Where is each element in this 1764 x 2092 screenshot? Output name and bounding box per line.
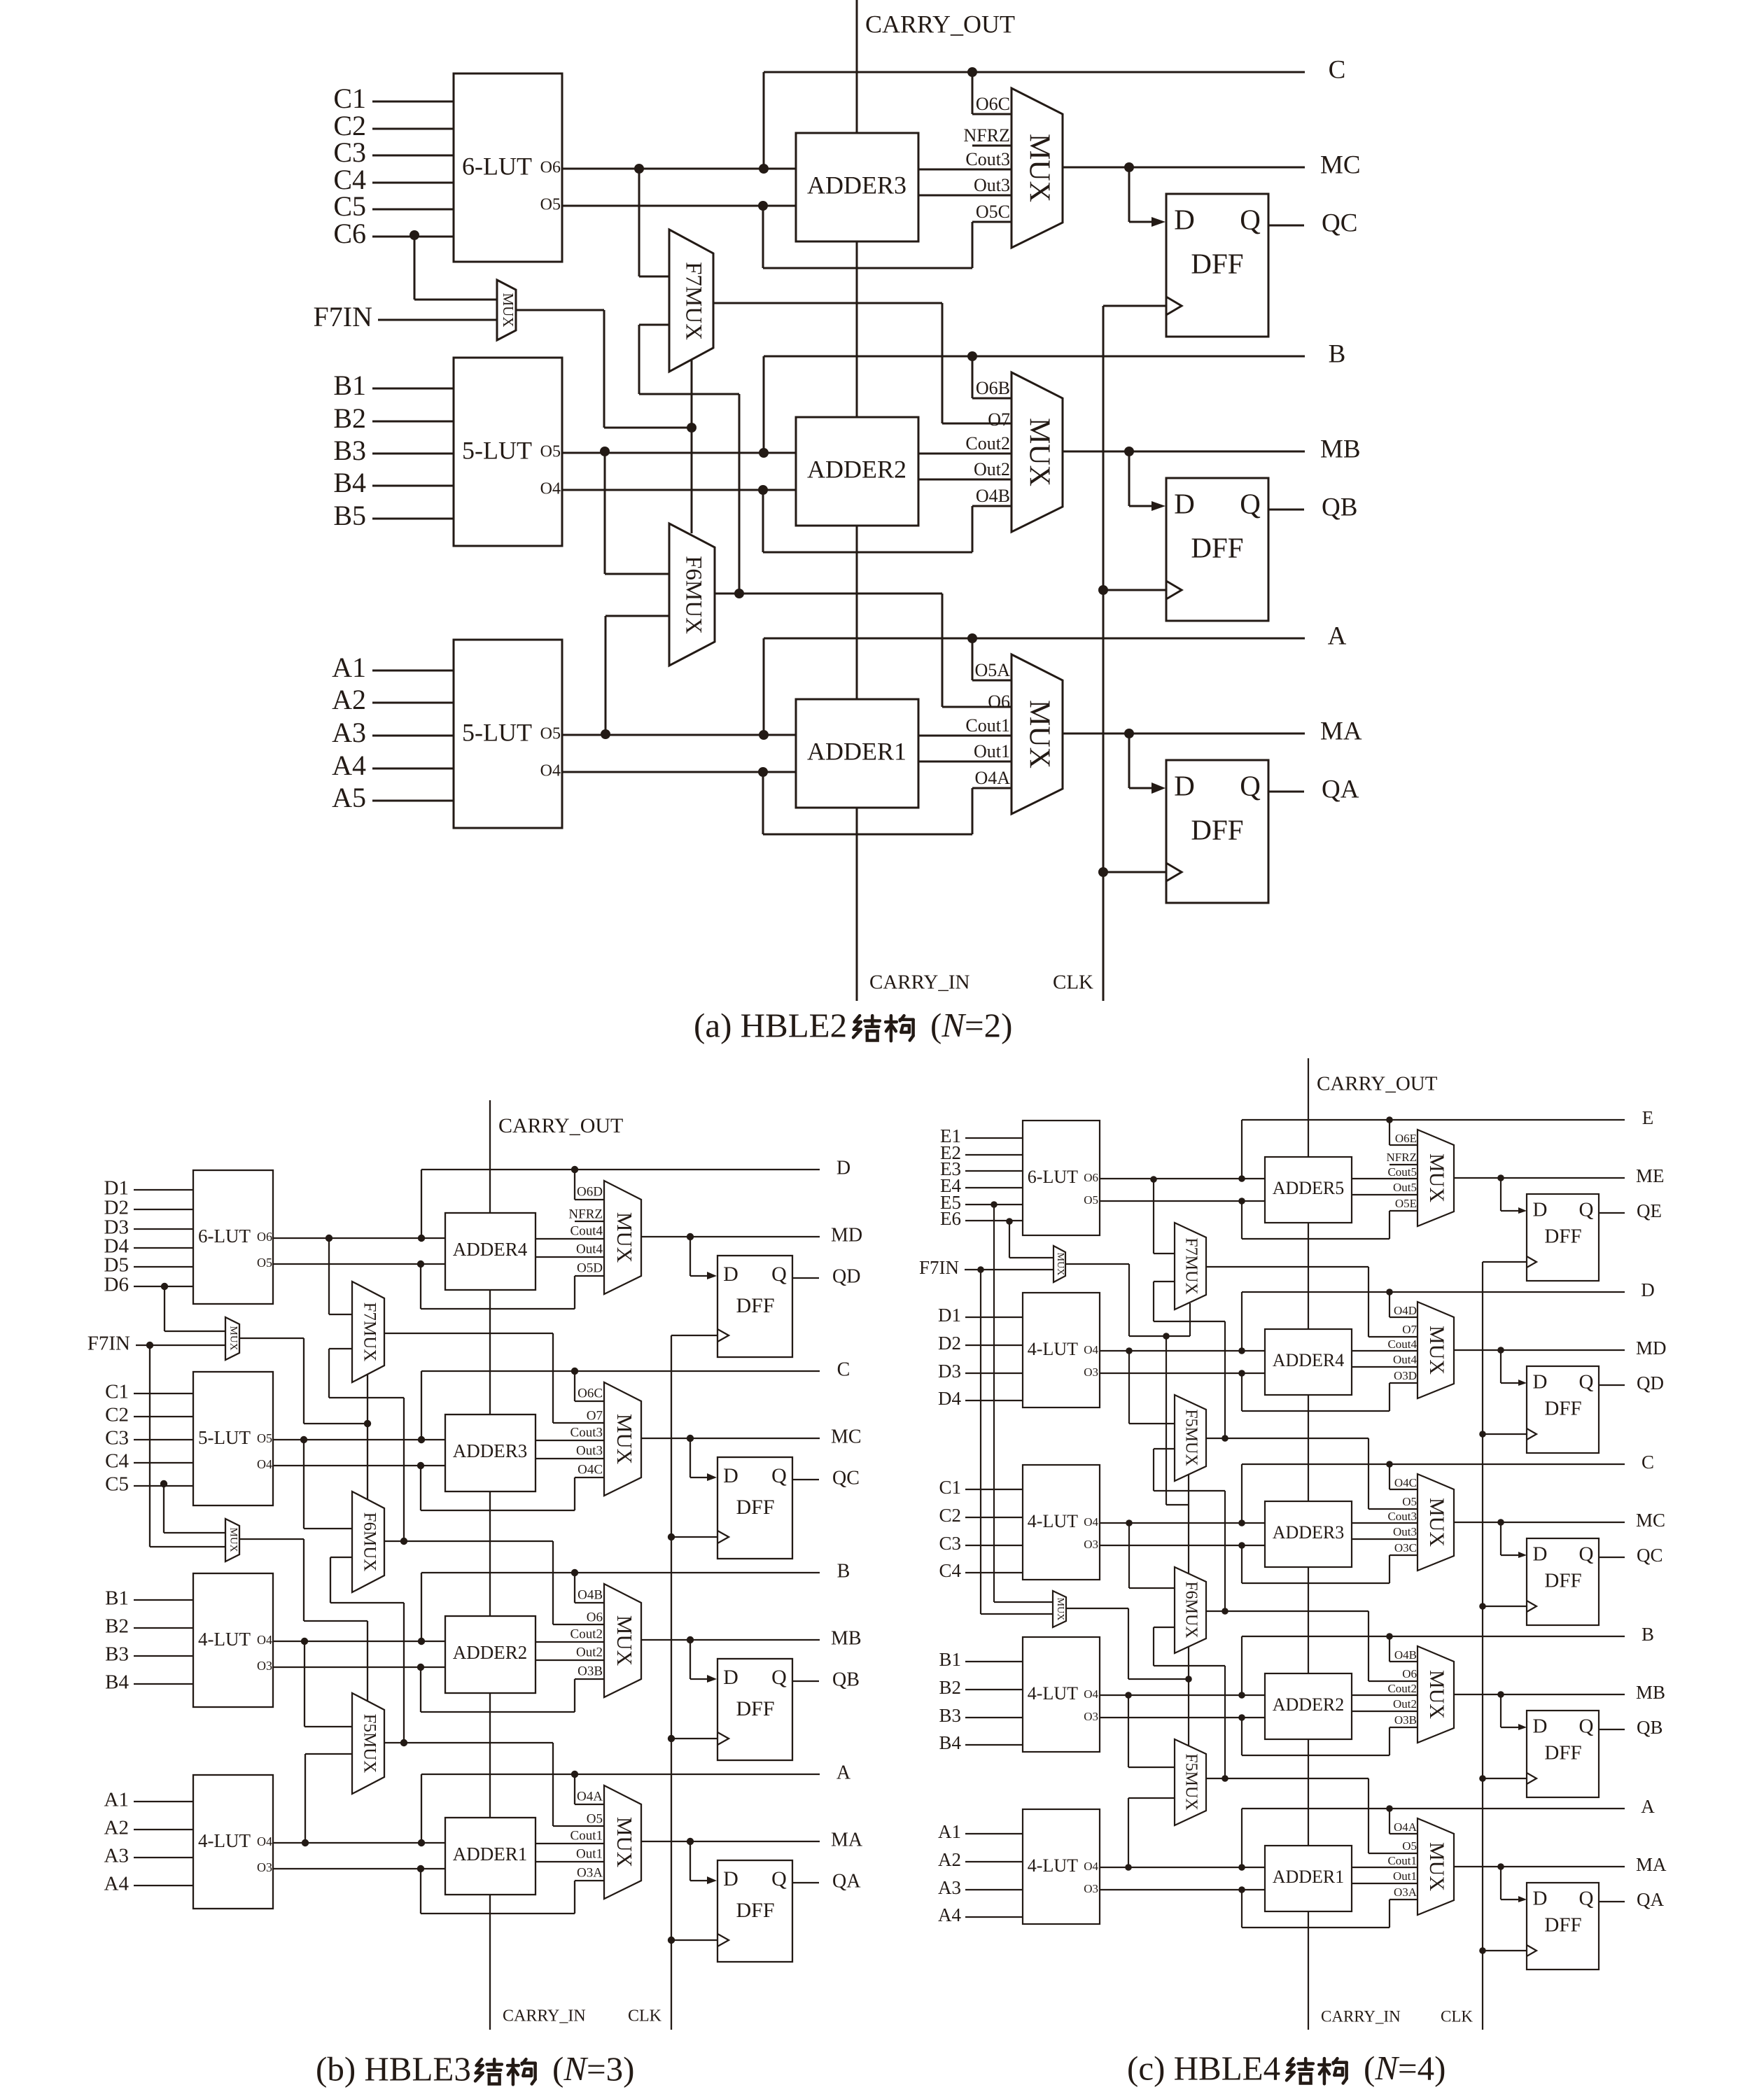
- svg-text:Cout2: Cout2: [1387, 1682, 1417, 1695]
- svg-text:O5: O5: [540, 443, 561, 461]
- svg-text:CLK: CLK: [1053, 971, 1093, 994]
- svg-text:NFRZ: NFRZ: [568, 1207, 603, 1221]
- svg-text:O4D: O4D: [1394, 1304, 1417, 1317]
- svg-text:MB: MB: [1320, 435, 1361, 463]
- wire MUX input O6B: [972, 356, 1011, 398]
- svg-text:O6E: O6E: [1395, 1132, 1417, 1145]
- net C row line: [764, 55, 1345, 84]
- wire MUX input O6E: [1389, 1120, 1417, 1145]
- MUX C row: [1011, 88, 1063, 248]
- svg-text:MUX: MUX: [228, 1326, 239, 1350]
- wire Cout1: [535, 1828, 604, 1844]
- net MC line: [641, 1426, 862, 1447]
- svg-text:Out2: Out2: [576, 1645, 603, 1659]
- wire Out1: [918, 741, 1011, 761]
- wire F5MUX c lower input from F6MUX out: [1154, 1449, 1225, 1611]
- svg-text:F5MUX: F5MUX: [360, 1714, 379, 1774]
- wire D6 to small MUX1: [161, 1283, 225, 1331]
- wire C lower output O3: [1100, 1545, 1265, 1546]
- wire F6MUX c upper input from C O4: [1126, 1519, 1175, 1588]
- wire clock D: [1483, 1433, 1527, 1435]
- svg-text:O6: O6: [257, 1230, 272, 1244]
- label CARRY_OUT: [498, 1114, 623, 1137]
- wire F5MUX b upper input from B O4: [301, 1638, 352, 1727]
- wire Out3: [535, 1443, 604, 1459]
- input A1: [332, 652, 454, 683]
- net B row line: [1242, 1624, 1654, 1645]
- wire E5 to small MUX2 c: [990, 1201, 1053, 1602]
- svg-text:B5: B5: [333, 500, 366, 531]
- svg-text:MUX: MUX: [612, 1212, 637, 1263]
- label CLK: [1053, 971, 1093, 994]
- 4-LUT A (A1-A4): [193, 1775, 273, 1909]
- svg-text:Out3: Out3: [576, 1443, 603, 1458]
- svg-text:B3: B3: [939, 1705, 961, 1726]
- wire Out1: [535, 1846, 604, 1862]
- input E1: [940, 1125, 1023, 1146]
- 6-LUT C (C1-C6): [454, 73, 562, 262]
- input B5: [333, 500, 454, 531]
- svg-text:Out1: Out1: [974, 741, 1010, 761]
- svg-text:F6MUX: F6MUX: [360, 1512, 379, 1572]
- svg-text:C3: C3: [939, 1533, 961, 1554]
- net B row line: [764, 339, 1345, 368]
- wire F6MUX b upper input from C O5: [300, 1436, 352, 1529]
- svg-text:O3: O3: [257, 1659, 272, 1673]
- svg-text:D: D: [1533, 1888, 1548, 1910]
- junction B upper to row line: [418, 1573, 425, 1645]
- svg-text:O7: O7: [587, 1408, 603, 1423]
- svg-text:O4: O4: [1084, 1860, 1098, 1873]
- wire B upper output O4: [1100, 1694, 1265, 1696]
- wire C lower output O5: [562, 205, 796, 207]
- net MB line: [641, 1627, 862, 1649]
- input B1: [939, 1649, 1023, 1670]
- wire F7MUX lower input from F6MUX out: [639, 325, 744, 598]
- wire F5MUX c2 upper input from B O4: [1125, 1692, 1175, 1767]
- svg-text:Cout3: Cout3: [570, 1425, 603, 1440]
- svg-text:B3: B3: [333, 435, 366, 466]
- 4-LUT B (B1-B4): [1023, 1637, 1100, 1752]
- svg-text:A3: A3: [104, 1845, 129, 1867]
- label MUX input O6: [587, 1610, 603, 1624]
- wire O3B detour: [1238, 1713, 1417, 1755]
- DFF C: [717, 1457, 792, 1559]
- label CARRY_OUT: [1317, 1073, 1438, 1095]
- junction E upper to row line: [1238, 1120, 1245, 1182]
- svg-text:(N=3): (N=3): [552, 2049, 634, 2088]
- svg-text:O6C: O6C: [577, 1386, 603, 1400]
- input E6: [940, 1208, 1023, 1229]
- MUX B row: [1417, 1646, 1454, 1743]
- svg-text:A4: A4: [938, 1904, 961, 1925]
- label MUX input O5: [587, 1811, 603, 1826]
- svg-text:(b) HBLE3: (b) HBLE3: [316, 2049, 471, 2088]
- wire Out4: [535, 1242, 604, 1257]
- svg-text:C4: C4: [939, 1560, 961, 1581]
- wire F5MUX b output to A MUX O5: [384, 1743, 605, 1826]
- wire F7MUX b upper input from D O6: [325, 1235, 352, 1314]
- svg-text:Cout2: Cout2: [965, 433, 1010, 454]
- svg-text:O6: O6: [988, 692, 1010, 712]
- svg-text:CARRY_OUT: CARRY_OUT: [865, 10, 1015, 38]
- DFF B: [717, 1659, 792, 1760]
- adder ADDER2: [445, 1616, 535, 1693]
- net CLK vertical: [1098, 306, 1108, 1001]
- svg-text:A2: A2: [938, 1849, 961, 1870]
- wire Out2: [535, 1645, 604, 1660]
- wire Cout3: [918, 149, 1011, 169]
- svg-text:C5: C5: [105, 1473, 129, 1496]
- wire Cout1: [918, 715, 1011, 736]
- svg-text:ADDER3: ADDER3: [453, 1440, 528, 1461]
- net MD line: [1454, 1338, 1667, 1359]
- wire MUX input O4B: [1389, 1636, 1417, 1662]
- F7MUX b: [352, 1282, 384, 1382]
- wire MUX input NFRZ stub: [568, 1207, 604, 1221]
- svg-text:F6MUX: F6MUX: [1182, 1581, 1200, 1638]
- wire clock E: [1483, 1261, 1527, 1263]
- wire Out5: [1352, 1181, 1417, 1195]
- svg-text:D: D: [836, 1157, 850, 1179]
- adder ADDER3: [1265, 1501, 1352, 1567]
- svg-text:MUX: MUX: [1425, 1670, 1448, 1719]
- svg-text:4-LUT: 4-LUT: [1028, 1339, 1078, 1359]
- F7MUX: [669, 230, 713, 372]
- svg-text:A4: A4: [104, 1873, 129, 1895]
- svg-text:Out3: Out3: [1393, 1525, 1417, 1538]
- wire clock A: [1483, 1950, 1527, 1951]
- net C row line: [1242, 1452, 1654, 1473]
- input C2: [333, 110, 454, 141]
- input E5: [940, 1192, 1023, 1213]
- wire MUX input NFRZ stub: [964, 125, 1011, 146]
- input C1: [105, 1381, 193, 1403]
- svg-text:MUX: MUX: [1425, 1326, 1448, 1375]
- svg-text:Q: Q: [1240, 487, 1261, 519]
- wire O3A detour: [1238, 1886, 1417, 1928]
- svg-text:MUX: MUX: [612, 1414, 637, 1464]
- net QC line: [1599, 1545, 1663, 1566]
- svg-text:O4C: O4C: [1394, 1476, 1417, 1489]
- F5MUX c upper: [1175, 1395, 1206, 1481]
- wire D feed B: [1501, 1694, 1527, 1730]
- svg-text:O7: O7: [988, 409, 1010, 430]
- svg-text:F7IN: F7IN: [314, 301, 372, 332]
- svg-text:O5C: O5C: [976, 202, 1010, 222]
- wire F5MUX c2 output to A MUX O5: [1206, 1775, 1417, 1853]
- svg-text:O3A: O3A: [1394, 1886, 1417, 1899]
- wire D feed D: [1501, 1350, 1527, 1386]
- svg-text:B: B: [1329, 339, 1346, 368]
- wire C5 to small MUX2: [160, 1480, 225, 1533]
- wire Cout2: [535, 1627, 604, 1642]
- input D5: [104, 1254, 193, 1277]
- MUX E row: [1417, 1130, 1454, 1226]
- wire F7MUX b output to C MUX O7: [384, 1333, 605, 1423]
- svg-text:ADDER3: ADDER3: [1273, 1522, 1345, 1543]
- input D3: [104, 1216, 193, 1239]
- net MC line: [1063, 150, 1361, 179]
- svg-text:DFF: DFF: [736, 1899, 774, 1922]
- input B2: [333, 402, 454, 434]
- svg-text:O3: O3: [1084, 1366, 1098, 1379]
- svg-text:Cout5: Cout5: [1387, 1165, 1417, 1179]
- junction D upper to row line: [418, 1170, 425, 1242]
- svg-text:E6: E6: [940, 1208, 961, 1229]
- svg-text:A1: A1: [104, 1789, 129, 1811]
- DFF B: [1166, 478, 1268, 621]
- input D2: [104, 1197, 193, 1219]
- svg-text:DFF: DFF: [736, 1496, 774, 1519]
- wire MUX input O6D: [575, 1170, 604, 1200]
- input C2: [939, 1505, 1023, 1526]
- svg-text:B: B: [837, 1560, 850, 1582]
- F7MUX c: [1175, 1223, 1206, 1310]
- svg-text:MUX: MUX: [1023, 418, 1055, 486]
- DFF C: [1166, 194, 1268, 337]
- input C2: [105, 1404, 193, 1426]
- svg-text:O6B: O6B: [976, 378, 1010, 398]
- MUX small 2 b: [225, 1519, 239, 1561]
- svg-text:O4: O4: [540, 762, 561, 780]
- label MUX input O7: [587, 1408, 603, 1423]
- svg-text:O3C: O3C: [1394, 1541, 1417, 1554]
- junction C upper to row line: [1238, 1464, 1245, 1526]
- F6MUX b: [352, 1491, 384, 1592]
- svg-text:MC: MC: [1636, 1510, 1665, 1531]
- svg-text:MB: MB: [1636, 1682, 1665, 1703]
- input B2: [105, 1615, 193, 1638]
- wire D feed A: [690, 1841, 717, 1884]
- wire clock C: [671, 1536, 717, 1538]
- adder ADDER1: [1265, 1846, 1352, 1911]
- net D row line: [1242, 1279, 1655, 1300]
- svg-text:O5: O5: [1084, 1193, 1098, 1207]
- wire clock D: [671, 1335, 717, 1336]
- svg-text:O5A: O5A: [974, 660, 1010, 680]
- svg-text:DFF: DFF: [1544, 1742, 1581, 1764]
- net B row line: [421, 1560, 850, 1582]
- svg-text:DFF: DFF: [736, 1294, 774, 1317]
- wire B upper output O5: [562, 452, 796, 454]
- DFF A: [717, 1860, 792, 1962]
- wire D feed A: [1501, 1867, 1527, 1902]
- wire B lower output O3: [1100, 1717, 1265, 1718]
- input B1: [333, 370, 454, 401]
- svg-text:O5E: O5E: [1395, 1197, 1417, 1210]
- svg-text:O6: O6: [1402, 1667, 1417, 1680]
- wire E6 to small MUX1 c: [1006, 1218, 1053, 1258]
- input B1: [105, 1587, 193, 1610]
- svg-text:Cout4: Cout4: [1387, 1338, 1417, 1351]
- wire F6MUX output to A MUX O6: [715, 594, 1011, 707]
- svg-text:Q: Q: [771, 1263, 787, 1286]
- svg-text:MUX: MUX: [1055, 1598, 1065, 1621]
- svg-text:ADDER4: ADDER4: [1273, 1350, 1345, 1370]
- input A4: [938, 1904, 1023, 1925]
- wire O4A detour: [758, 767, 1011, 834]
- net CARRY chain vertical: [856, 0, 858, 1001]
- DFF B: [1527, 1711, 1599, 1797]
- input C4: [939, 1560, 1023, 1581]
- net A row line: [421, 1762, 851, 1783]
- wire D upper output O6: [273, 1237, 445, 1239]
- svg-text:O6C: O6C: [976, 94, 1010, 114]
- wire clock A: [671, 1939, 717, 1941]
- input C6: [333, 218, 454, 249]
- svg-text:5-LUT: 5-LUT: [462, 718, 532, 746]
- svg-text:MC: MC: [831, 1426, 862, 1447]
- net A row line: [764, 622, 1347, 650]
- svg-text:CARRY_IN: CARRY_IN: [503, 2007, 586, 2026]
- svg-text:QA: QA: [1637, 1889, 1664, 1910]
- svg-text:C2: C2: [105, 1404, 129, 1426]
- MUX A row: [1417, 1818, 1454, 1915]
- net MB line: [1454, 1682, 1665, 1703]
- svg-text:A: A: [836, 1762, 851, 1783]
- wire O4B detour: [758, 485, 1011, 552]
- MUX small 2 c: [1053, 1591, 1066, 1627]
- svg-text:O3: O3: [1084, 1538, 1098, 1551]
- svg-text:Cout4: Cout4: [570, 1223, 603, 1238]
- input B4: [939, 1732, 1023, 1753]
- caption (b): [316, 2049, 634, 2088]
- svg-text:MUX: MUX: [1425, 1498, 1448, 1547]
- svg-text:Q: Q: [771, 1867, 787, 1890]
- svg-text:ME: ME: [1636, 1165, 1665, 1186]
- svg-text:D3: D3: [938, 1361, 961, 1382]
- svg-text:CLK: CLK: [1441, 2007, 1473, 2025]
- wire F5MUX c output to C MUX O5: [1206, 1438, 1417, 1509]
- svg-text:B2: B2: [939, 1677, 961, 1698]
- svg-text:D: D: [723, 1867, 738, 1890]
- wire O4C detour: [417, 1462, 604, 1510]
- junction D upper to row line: [1238, 1292, 1245, 1354]
- svg-text:D: D: [1174, 769, 1195, 801]
- svg-text:A2: A2: [104, 1817, 129, 1839]
- wire Out3: [918, 175, 1011, 195]
- input C1: [939, 1477, 1023, 1498]
- svg-text:DFF: DFF: [1191, 813, 1243, 845]
- svg-text:B2: B2: [105, 1615, 129, 1638]
- DFF D: [1527, 1366, 1599, 1453]
- svg-text:B4: B4: [105, 1671, 129, 1694]
- svg-text:E: E: [1642, 1107, 1654, 1128]
- net CLK vertical: [668, 1335, 675, 2030]
- svg-text:A: A: [1641, 1796, 1655, 1817]
- input A3: [938, 1877, 1023, 1898]
- svg-text:B3: B3: [105, 1643, 129, 1666]
- svg-text:O3: O3: [257, 1860, 272, 1874]
- wire F6MUX c lower input from F5MUX out: [1154, 1627, 1225, 1778]
- wire Out3: [1352, 1525, 1417, 1539]
- svg-text:QD: QD: [1637, 1373, 1664, 1394]
- svg-text:O5: O5: [257, 1256, 272, 1270]
- net QA line: [1599, 1889, 1664, 1910]
- wire F5MUX c upper input from D O4: [1126, 1347, 1175, 1424]
- input A5: [332, 782, 454, 813]
- input A3: [104, 1845, 193, 1867]
- wire D feed C: [690, 1438, 717, 1481]
- svg-text:O5: O5: [1402, 1495, 1417, 1508]
- net QA line: [793, 1870, 861, 1892]
- svg-text:MA: MA: [1320, 717, 1362, 745]
- F5MUX b: [352, 1693, 384, 1794]
- input B3: [939, 1705, 1023, 1726]
- svg-text:C: C: [1329, 55, 1346, 84]
- MUX A row: [1011, 654, 1063, 814]
- svg-text:MUX: MUX: [1425, 1842, 1448, 1891]
- svg-text:Q: Q: [1240, 203, 1261, 235]
- wire clock A: [1103, 871, 1166, 873]
- MUX D row: [1417, 1302, 1454, 1398]
- svg-text:Cout1: Cout1: [1387, 1854, 1417, 1867]
- wire clock B: [671, 1738, 717, 1739]
- MUX C row: [1417, 1474, 1454, 1571]
- svg-text:Q: Q: [1240, 769, 1261, 801]
- svg-text:Cout3: Cout3: [965, 149, 1010, 169]
- 6-LUT D (D1-D6): [193, 1170, 273, 1304]
- svg-text:F7IN: F7IN: [919, 1257, 959, 1278]
- svg-text:O6: O6: [587, 1610, 603, 1624]
- net QB line: [793, 1669, 860, 1690]
- svg-text:6-LUT: 6-LUT: [198, 1226, 251, 1247]
- svg-text:O5D: O5D: [577, 1261, 603, 1275]
- input D6: [104, 1274, 193, 1296]
- net MA line: [641, 1829, 863, 1851]
- svg-text:F7MUX: F7MUX: [1182, 1237, 1200, 1294]
- svg-text:C2: C2: [939, 1505, 961, 1526]
- input A4: [104, 1873, 193, 1895]
- svg-text:O4A: O4A: [577, 1789, 603, 1804]
- MUX B row: [604, 1584, 641, 1697]
- svg-text:A3: A3: [938, 1877, 961, 1898]
- svg-text:C4: C4: [105, 1450, 129, 1473]
- svg-text:CARRY_IN: CARRY_IN: [1321, 2007, 1401, 2025]
- wire A upper output O4: [273, 1842, 445, 1844]
- wire A upper output O4: [1100, 1867, 1265, 1868]
- MUX small 1 b: [225, 1317, 239, 1360]
- net D row line: [421, 1157, 850, 1179]
- wire D feed B: [1129, 451, 1165, 511]
- net QB line: [1268, 493, 1357, 521]
- svg-text:CARRY_OUT: CARRY_OUT: [1317, 1073, 1438, 1095]
- adder ADDER5: [1265, 1157, 1352, 1223]
- F6MUX c: [1175, 1567, 1206, 1653]
- svg-text:DFF: DFF: [1191, 247, 1243, 279]
- svg-text:B1: B1: [105, 1587, 129, 1610]
- svg-text:D: D: [1174, 487, 1195, 519]
- svg-text:O4B: O4B: [577, 1587, 603, 1602]
- wire clock B: [1483, 1778, 1527, 1779]
- wire O3B detour: [417, 1664, 604, 1712]
- net MB line: [1063, 435, 1361, 463]
- svg-text:ADDER2: ADDER2: [453, 1642, 528, 1663]
- svg-text:O4: O4: [257, 1633, 272, 1647]
- 5-LUT B (B1-B5): [454, 358, 562, 546]
- label MUX input O7: [988, 409, 1010, 430]
- wire F7MUX b lower input from F6MUX out: [329, 1349, 407, 1545]
- svg-text:C1: C1: [939, 1477, 961, 1498]
- svg-text:C: C: [837, 1359, 850, 1380]
- 5-LUT C (C1-C5): [193, 1372, 273, 1505]
- wire F7IN: [378, 319, 497, 321]
- svg-text:O4: O4: [1084, 1687, 1098, 1701]
- input C5: [333, 190, 454, 222]
- svg-text:C3: C3: [105, 1427, 129, 1449]
- svg-text:O5: O5: [587, 1811, 603, 1826]
